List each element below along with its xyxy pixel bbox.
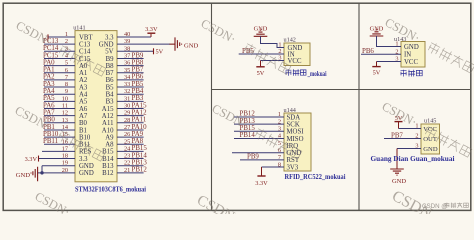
svg-text:PA5: PA5 [43, 95, 55, 102]
svg-text:3.3: 3.3 [105, 34, 114, 41]
svg-text:C13: C13 [79, 41, 91, 48]
U141 pin 33 wire, net PB5 [117, 81, 144, 88]
svg-text:PB13: PB13 [132, 160, 148, 167]
svg-text:B14: B14 [102, 156, 114, 163]
U141 pin 6 wire, net PA1 [43, 67, 75, 74]
U141 pin 7 wire, net PA2 [43, 74, 75, 81]
U143 pin 1 GND wire [377, 36, 402, 48]
svg-text:5V: 5V [156, 49, 164, 56]
svg-text:B6: B6 [106, 77, 115, 84]
svg-text:28: 28 [124, 117, 130, 124]
svg-text:_mokuai: _mokuai [307, 71, 327, 78]
svg-text:2: 2 [278, 118, 281, 125]
U141 pin 25 wire, net PA8 [117, 138, 144, 145]
svg-text:GND: GND [79, 170, 94, 177]
svg-text:u142: u142 [284, 37, 296, 44]
svg-text:PA0: PA0 [43, 59, 55, 66]
svg-text:B4: B4 [106, 92, 115, 99]
U141 pin 30 wire, net PA15 [117, 102, 147, 109]
svg-text:3: 3 [278, 126, 281, 133]
svg-text:PA11: PA11 [132, 117, 147, 124]
svg-text:A15: A15 [102, 106, 114, 113]
U142 GND power symbol [254, 26, 268, 37]
svg-text:STM32F103C8T6_mokuai: STM32F103C8T6_mokuai [75, 187, 146, 194]
svg-text:1: 1 [395, 41, 398, 48]
svg-text:PB15: PB15 [132, 145, 148, 152]
U143 pin 2 IN wire, net PB6 [361, 48, 401, 55]
svg-text:20: 20 [62, 167, 68, 174]
svg-text:7: 7 [278, 154, 281, 161]
svg-text:CSDN·: CSDN· [14, 18, 54, 48]
svg-text:PA9: PA9 [132, 131, 144, 138]
svg-text:6: 6 [65, 67, 68, 74]
svg-text:1: 1 [278, 111, 281, 118]
svg-text:PA2: PA2 [43, 74, 55, 81]
svg-text:19: 19 [62, 160, 68, 167]
svg-text:2: 2 [395, 48, 398, 55]
svg-text:3.3V: 3.3V [255, 180, 268, 187]
U141 pin 32 wire, net PB4 [117, 88, 144, 95]
watermark row 1 [14, 15, 474, 77]
svg-text:10: 10 [62, 95, 68, 102]
svg-text:18: 18 [62, 153, 68, 160]
svg-text:23: 23 [124, 153, 130, 160]
svg-text:24: 24 [124, 145, 131, 152]
svg-text:B8: B8 [106, 63, 115, 70]
svg-text:5V: 5V [257, 70, 265, 77]
svg-text:PB6: PB6 [132, 74, 144, 81]
svg-text:PC15: PC15 [43, 52, 59, 59]
watermark row 2 [13, 99, 474, 162]
svg-text:39: 39 [124, 38, 130, 45]
svg-text:GND: GND [423, 146, 438, 153]
svg-text:MISO: MISO [287, 136, 304, 143]
svg-text:VCC: VCC [404, 59, 418, 66]
designator u143 [394, 36, 406, 43]
designator u142 [284, 37, 296, 44]
svg-text:GND: GND [99, 41, 114, 48]
U144 pin 6 GND wire [232, 147, 284, 154]
U141 pin 22 wire, net PB13 [117, 160, 147, 167]
U141 pin 37 wire, net PB9 [117, 52, 144, 59]
svg-text:37: 37 [124, 52, 130, 59]
svg-text:B9: B9 [106, 56, 115, 63]
svg-text:B7: B7 [106, 70, 115, 77]
svg-text:3: 3 [415, 143, 418, 150]
U141 pin 29 wire, net PA12 [117, 109, 147, 116]
svg-text:u144: u144 [284, 107, 296, 114]
svg-text:A5: A5 [79, 99, 88, 106]
U143 pin names GND IN VCC [404, 44, 419, 66]
svg-text:3V3: 3V3 [287, 164, 299, 171]
svg-text:36: 36 [124, 60, 130, 67]
relay module U143 body [401, 42, 425, 68]
U144 pin 4 wire, net PB14 [234, 132, 284, 140]
svg-text:1: 1 [415, 123, 418, 130]
svg-text:29: 29 [124, 110, 130, 117]
U144 pin 5 IRQ [278, 140, 281, 147]
svg-text:PB7: PB7 [391, 132, 403, 139]
svg-text:PA6: PA6 [43, 102, 55, 109]
U141 pin names left column [79, 34, 94, 177]
U141 pin 31 wire, net PB3 [117, 95, 144, 102]
U145 pin 1 VCC wire to 5V power port [395, 116, 422, 130]
svg-text:A7: A7 [79, 113, 88, 120]
U141 pin 40 wire to 3.3V power port [117, 26, 158, 38]
svg-text:PB14: PB14 [240, 132, 256, 139]
svg-text:17: 17 [62, 145, 68, 152]
U142 pin names GND IN VCC [288, 45, 303, 65]
svg-text:3: 3 [395, 56, 398, 63]
U141 pin 20 GND wire with ground symbol [16, 167, 75, 182]
svg-text:B13: B13 [102, 163, 114, 170]
svg-text:14: 14 [62, 124, 69, 131]
svg-text:A3: A3 [79, 84, 88, 91]
svg-text:B5: B5 [106, 84, 115, 91]
designator u145 [424, 117, 436, 124]
U141 pin 28 wire, net PA11 [117, 117, 147, 124]
U141 pin 9 wire, net PA4 [43, 88, 75, 95]
svg-text:PB14: PB14 [132, 152, 148, 159]
svg-text:SDA: SDA [287, 114, 301, 121]
U141 pin 11 wire, net PA6 [43, 102, 75, 109]
svg-text:B1: B1 [79, 127, 87, 134]
svg-text:PB4: PB4 [132, 88, 144, 95]
U141 pin 4 wire, net PC15 [43, 52, 75, 59]
svg-text:25: 25 [124, 138, 130, 145]
U141 pin 5 wire, net PA0 [43, 59, 75, 66]
svg-text:A11: A11 [102, 120, 113, 127]
svg-text:22: 22 [124, 160, 130, 167]
RFID module U144 body [284, 113, 311, 171]
svg-text:PA15: PA15 [132, 102, 148, 109]
svg-text:B12: B12 [102, 170, 114, 177]
svg-text:PA1: PA1 [43, 67, 55, 74]
svg-text:u141: u141 [73, 25, 85, 32]
U141 pin 15 wire, net PB10 [43, 131, 75, 138]
svg-text:A1: A1 [79, 70, 87, 77]
svg-text:PA12: PA12 [132, 109, 148, 116]
svg-text:PB11: PB11 [43, 138, 59, 145]
svg-text:7: 7 [65, 74, 68, 81]
U142 part name relay_mokuai [286, 69, 327, 78]
U141 pin 14 wire, net PB1 [43, 124, 75, 131]
part name STM32F103C8T6_mokuai [75, 187, 146, 194]
svg-text:12: 12 [62, 110, 68, 117]
U141 pin 34 wire, net PB6 [117, 74, 144, 81]
U141 pin 36 wire, net PB8 [117, 59, 144, 66]
svg-text:CSDN·: CSDN· [199, 16, 239, 46]
section divider horizontal [212, 89, 471, 91]
svg-text:GND: GND [392, 178, 406, 185]
svg-text:32: 32 [124, 88, 130, 95]
svg-text:34: 34 [124, 74, 131, 81]
svg-text:3.3: 3.3 [79, 156, 88, 163]
U142 pin 1 GND wire [261, 36, 285, 48]
U145 pin 2 OUT wire, net PB7 [384, 132, 421, 139]
svg-text:PB3: PB3 [132, 95, 144, 102]
U144 pin names [287, 114, 305, 171]
svg-text:OUT: OUT [423, 136, 437, 143]
watermark footer CSDN@xiaochang [422, 203, 468, 210]
U141 pin 2 wire, net PC13 [43, 38, 75, 45]
svg-text:PA4: PA4 [43, 88, 55, 95]
U141 pin 16 wire, net PB11 [43, 138, 75, 145]
U144 pin 8 3V3 wire to 3.3V power port [255, 161, 284, 187]
svg-text:PB5: PB5 [132, 81, 144, 88]
svg-text:26: 26 [124, 131, 130, 138]
svg-text:A0: A0 [79, 63, 88, 70]
svg-text:2: 2 [415, 133, 418, 140]
designator u144 [284, 107, 296, 114]
svg-text:A6: A6 [79, 106, 88, 113]
svg-text:30: 30 [124, 103, 130, 110]
U145 pin 3 GND wire to ground [390, 143, 421, 185]
U144 pin 3 wire, net PB15 [234, 125, 284, 133]
svg-text:38: 38 [124, 45, 130, 52]
svg-text:A12: A12 [102, 113, 114, 120]
svg-text:A8: A8 [105, 142, 114, 149]
U141 pin 12 wire, net PA7 [43, 109, 75, 116]
svg-text:RFID_RC522_mokuai: RFID_RC522_mokuai [285, 174, 346, 181]
svg-text:PB7: PB7 [132, 67, 144, 74]
svg-text:A10: A10 [102, 127, 114, 134]
svg-text:13: 13 [62, 117, 68, 124]
svg-text:PA10: PA10 [132, 124, 148, 131]
svg-text:33: 33 [124, 81, 130, 88]
svg-text:PA7: PA7 [43, 109, 55, 116]
svg-text:IN: IN [404, 51, 411, 58]
U141 pin 24 wire, net PB15 [117, 145, 147, 152]
svg-text:8: 8 [278, 161, 281, 168]
U143 part name relay [401, 70, 423, 77]
svg-text:B3: B3 [106, 99, 115, 106]
U144 part name RFID_RC522_mokuai [285, 174, 346, 181]
svg-text:11: 11 [62, 103, 68, 110]
svg-text:21: 21 [124, 167, 130, 174]
U144 pin 7 RST wire, net PB9 [240, 154, 284, 162]
svg-text:27: 27 [124, 124, 130, 131]
U143 GND power symbol [370, 25, 384, 36]
svg-text:3.3V: 3.3V [25, 156, 38, 163]
svg-text:PB6: PB6 [362, 48, 374, 55]
U142 pin 2 IN wire, net PB5 [239, 48, 284, 55]
svg-text:CSDN·: CSDN· [380, 99, 420, 129]
svg-text:VCC: VCC [288, 58, 302, 65]
U143 pin 3 VCC wire to 5V power port [372, 56, 401, 77]
U141 pin 27 wire, net PA10 [117, 124, 147, 131]
svg-text:CSDN·: CSDN· [210, 101, 250, 131]
svg-text:5V: 5V [373, 70, 381, 77]
svg-text:A4: A4 [79, 92, 88, 99]
svg-text:GND: GND [404, 44, 419, 51]
svg-text:VCC: VCC [423, 126, 437, 133]
svg-text:VBT: VBT [79, 34, 93, 41]
U141 pin 18 wire to 3.3V power port [25, 153, 75, 163]
U141 pin 13 wire, net PB0 [43, 117, 75, 124]
relay module U142 body [284, 43, 310, 66]
svg-text:GND: GND [79, 163, 94, 170]
svg-text:GND: GND [184, 42, 199, 49]
svg-text:40: 40 [124, 31, 130, 38]
U141 pin 19 GND wire [42, 160, 75, 173]
U141 pin 39 wire to GND symbol [117, 37, 199, 50]
svg-text:2: 2 [65, 38, 68, 45]
U141 pin 21 wire, net PB12 [117, 167, 147, 174]
U141 pin 38 wire to 5V power port [117, 45, 164, 55]
section divider vertical 1 [211, 3, 213, 210]
svg-text:B0: B0 [79, 120, 88, 127]
U141 pin 35 wire, net PB7 [117, 67, 144, 74]
U142 pin 3 VCC wire to 5V power port [256, 55, 284, 77]
U145 part name Guang Dian Guan_mokuai [371, 156, 455, 163]
U141 pin 1 VBT wire with power bar [48, 31, 75, 40]
svg-text:u145: u145 [424, 117, 436, 124]
svg-text:Guang Dian Guan_mokuai: Guang Dian Guan_mokuai [371, 156, 455, 163]
svg-text:PB8: PB8 [132, 59, 144, 66]
U145 pin names VCC OUT GND [423, 126, 438, 153]
svg-text:CSDN @: CSDN @ [422, 203, 448, 210]
svg-text:RES: RES [79, 149, 92, 156]
sensor module U145 body [421, 124, 440, 154]
svg-text:A9: A9 [105, 134, 114, 141]
svg-text:31: 31 [124, 95, 130, 102]
svg-text:PB9: PB9 [132, 52, 144, 59]
U141 pin 10 wire, net PA5 [43, 95, 75, 102]
svg-text:3.3V: 3.3V [145, 26, 158, 33]
section divider vertical 2 [358, 3, 360, 210]
U141 pin 3 wire, net PC14 [43, 45, 75, 52]
svg-text:PB12: PB12 [132, 167, 148, 174]
svg-text:8: 8 [65, 81, 68, 88]
svg-text:PA3: PA3 [43, 81, 55, 88]
designator u141 [73, 25, 85, 32]
svg-text:9: 9 [65, 88, 68, 95]
svg-text:SCK: SCK [287, 121, 300, 128]
U141 pin names right column [99, 34, 114, 177]
svg-text:PB9: PB9 [247, 154, 259, 161]
watermark row 3 [33, 188, 474, 240]
U141 pin 8 wire, net PA3 [43, 81, 75, 88]
svg-text:1: 1 [65, 31, 68, 38]
svg-text:A2: A2 [79, 77, 88, 84]
svg-text:5V: 5V [105, 49, 113, 56]
svg-text:35: 35 [124, 67, 130, 74]
svg-text:5: 5 [65, 60, 68, 67]
U141 pin 26 wire, net PA9 [117, 131, 144, 138]
U141 pin 17 RESET wire [42, 145, 75, 152]
U141 pin 23 wire, net PB14 [117, 152, 147, 159]
svg-text:C14: C14 [79, 49, 91, 56]
U144 pin 2 wire, net PB13 [234, 118, 284, 126]
U144 pin 1 wire, net PB12 [234, 111, 284, 119]
svg-text:MOSI: MOSI [287, 129, 305, 136]
svg-text:PA8: PA8 [132, 138, 144, 145]
MCU module U141 body [75, 31, 117, 182]
svg-text:GND: GND [16, 172, 31, 179]
svg-text:3: 3 [278, 55, 281, 62]
